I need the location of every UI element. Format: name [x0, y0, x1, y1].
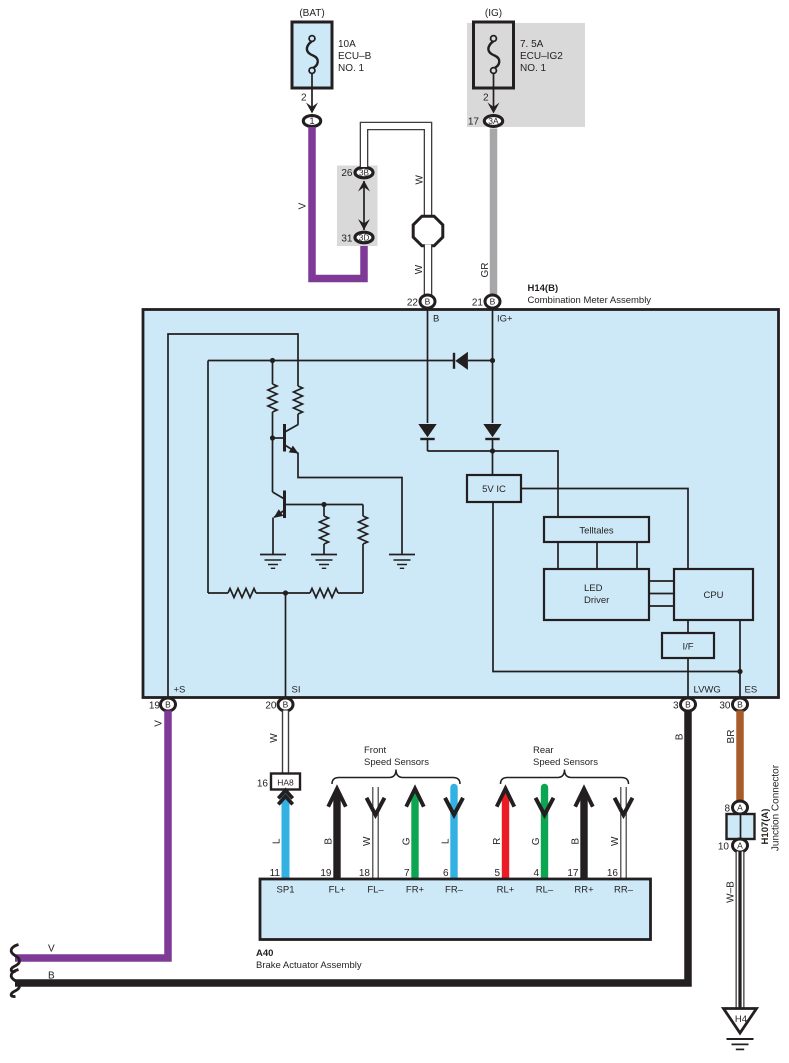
- svg-text:16: 16: [607, 868, 619, 879]
- svg-text:B: B: [674, 733, 685, 740]
- svg-text:Rear: Rear: [533, 745, 554, 756]
- wire V (violet) from connector 1 to connector 3D: [297, 127, 364, 279]
- svg-text:10A: 10A: [338, 39, 356, 50]
- octagon noise filter symbol: [413, 216, 443, 246]
- svg-text:I/F: I/F: [682, 642, 693, 653]
- svg-text:31: 31: [341, 234, 353, 245]
- svg-text:W: W: [269, 733, 280, 743]
- svg-text:L: L: [441, 838, 452, 844]
- resistor R2: [294, 386, 303, 414]
- svg-text:Driver: Driver: [584, 595, 609, 606]
- internal junction link 3B-3D (double arrow): [358, 181, 370, 231]
- wire 5V IC to CPU: [521, 489, 688, 570]
- wire CPU to I/F: [687, 620, 689, 633]
- svg-text:FL–: FL–: [367, 885, 384, 896]
- svg-text:(BAT): (BAT): [299, 8, 324, 19]
- off-page squiggle for V wire: [11, 945, 19, 972]
- wire CPU down to ES pin: [739, 620, 741, 697]
- svg-text:7. 5A: 7. 5A: [520, 39, 544, 50]
- wires Telltales to LED Driver: [558, 542, 637, 569]
- svg-text:B: B: [48, 971, 55, 982]
- svg-text:W–B: W–B: [725, 881, 736, 903]
- wire Q2 emitter to ground: [272, 518, 274, 555]
- transistor Q1 (NPN): [273, 414, 299, 454]
- meter pin 3 terminal B (LVWG): [673, 698, 696, 712]
- svg-text:10: 10: [718, 842, 730, 853]
- label A40 Brake Actuator Assembly: [256, 948, 362, 971]
- meter pin 19 terminal B (+S): [149, 698, 176, 712]
- svg-text:FR+: FR+: [406, 885, 425, 896]
- diode D1 (pointing left): [454, 352, 493, 370]
- svg-text:B: B: [324, 838, 335, 845]
- wire GR (gray) from 3A to meter pin 21: [480, 129, 494, 296]
- svg-text:FR–: FR–: [445, 885, 464, 896]
- resistor R4: [359, 505, 368, 594]
- svg-text:A40: A40: [256, 948, 273, 959]
- brace Rear Speed Sensors: [501, 745, 629, 784]
- svg-text:B: B: [685, 699, 691, 709]
- gray panel behind IG fuse: [467, 23, 585, 127]
- meter pin 20 terminal B (SI): [265, 698, 293, 712]
- svg-text:W: W: [362, 836, 373, 846]
- svg-text:V: V: [154, 720, 165, 727]
- wire from bottom rail down to SI pin: [285, 593, 287, 697]
- wire 5V IC down and right to ES line: [493, 502, 743, 674]
- svg-text:Telltales: Telltales: [579, 526, 614, 537]
- ground (middle): [311, 554, 337, 556]
- wire rear-left speed sensor - wire G: [531, 788, 554, 880]
- junction node on IG+ line: [490, 358, 495, 363]
- wire fuse F1 pin 2 to connector 1: [301, 73, 318, 114]
- svg-text:3B: 3B: [359, 168, 370, 177]
- LED Driver box: [544, 569, 649, 620]
- svg-text:+S: +S: [174, 685, 186, 696]
- label H107(A) Junction Connector: [760, 764, 781, 851]
- svg-text:6: 6: [443, 868, 449, 879]
- svg-text:30: 30: [719, 701, 731, 712]
- wire W-B (white-black) from pin 10 to ground H4: [725, 852, 740, 1009]
- svg-text:H14(B): H14(B): [528, 283, 559, 294]
- svg-text:2: 2: [483, 93, 489, 104]
- svg-text:19: 19: [320, 868, 332, 879]
- svg-text:B: B: [433, 314, 439, 325]
- svg-text:NO. 1: NO. 1: [520, 63, 547, 74]
- diode D3 (down): [483, 424, 501, 451]
- svg-text:B: B: [737, 699, 743, 709]
- svg-text:21: 21: [472, 298, 484, 309]
- diode D2 (down): [418, 424, 436, 451]
- svg-text:17: 17: [468, 117, 480, 128]
- wire fuse F2 pin 2 to connector 3A: [483, 73, 500, 114]
- ground (right): [389, 554, 415, 556]
- brake actuator assembly box A40: [260, 879, 651, 940]
- brace Front Speed Sensors: [332, 745, 460, 784]
- svg-text:ES: ES: [745, 685, 758, 696]
- wire W (white) from 3B up over to octagon noise filter: [364, 126, 428, 218]
- svg-text:FL+: FL+: [329, 885, 346, 896]
- svg-text:A: A: [737, 840, 743, 850]
- svg-text:2: 2: [301, 93, 307, 104]
- svg-text:(IG): (IG): [485, 8, 502, 19]
- svg-text:ECU–B: ECU–B: [338, 51, 372, 62]
- ground point H4: [724, 1009, 757, 1034]
- svg-text:G: G: [402, 837, 413, 845]
- svg-text:A: A: [737, 802, 743, 812]
- svg-text:LVWG: LVWG: [694, 685, 721, 696]
- wire from +S pin up and over to resistor R2: [168, 334, 298, 697]
- wire pin21 IG+ down to diode D3: [492, 309, 494, 423]
- node base rail of Q2: [321, 502, 326, 507]
- svg-text:R: R: [492, 838, 503, 845]
- wire W (white) from pin 20 to HA8: [269, 711, 286, 775]
- wire left branch down to base rail: [207, 361, 209, 594]
- svg-text:B: B: [425, 296, 431, 306]
- label H14(B) Combination Meter Assembly: [528, 283, 652, 306]
- svg-text:V: V: [297, 202, 308, 209]
- fuse F1 10A ECU-B (BAT): [292, 8, 372, 88]
- svg-text:7: 7: [404, 868, 410, 879]
- wire front-left speed sensor + wire B: [320, 789, 345, 879]
- CPU box: [674, 569, 753, 620]
- svg-text:W: W: [414, 264, 425, 274]
- wire diode output rail to telltales feed: [428, 448, 559, 517]
- svg-text:4: 4: [533, 868, 539, 879]
- svg-text:16: 16: [257, 779, 269, 790]
- svg-text:5: 5: [494, 868, 500, 879]
- svg-text:GR: GR: [480, 263, 491, 278]
- svg-text:W: W: [414, 175, 425, 185]
- meter pin 30 terminal B (ES): [719, 698, 747, 712]
- svg-text:Junction Connector: Junction Connector: [770, 764, 781, 851]
- junction connector H107(A) box: [727, 814, 755, 839]
- svg-text:3: 3: [673, 701, 679, 712]
- ground (left): [260, 554, 286, 556]
- svg-text:H107(A): H107(A): [760, 809, 771, 845]
- svg-text:L: L: [272, 838, 283, 844]
- junction connector pin 10 terminal A: [718, 839, 748, 853]
- connector terminal 3A pin 17: [468, 116, 503, 128]
- wire rear-right speed sensor + wire B: [567, 789, 592, 879]
- svg-text:3D: 3D: [359, 233, 370, 242]
- svg-text:CPU: CPU: [703, 590, 723, 601]
- svg-text:B: B: [571, 838, 582, 845]
- wire Q1 base down to Q2 collector: [273, 438, 285, 499]
- combination meter assembly box H14(B): [143, 310, 779, 698]
- svg-text:RR+: RR+: [574, 885, 594, 896]
- wire junction down to 5V IC: [492, 451, 494, 475]
- svg-text:Speed Sensors: Speed Sensors: [533, 757, 598, 768]
- node base of Q1: [270, 435, 275, 440]
- wire I/F down to LVWG pin: [687, 658, 689, 697]
- wire BR (brown) from pin 30 to junction connector: [726, 711, 740, 803]
- svg-text:18: 18: [359, 868, 371, 879]
- svg-text:NO. 1: NO. 1: [338, 63, 365, 74]
- svg-text:ECU–IG2: ECU–IG2: [520, 51, 563, 62]
- svg-text:17: 17: [567, 868, 579, 879]
- svg-text:Front: Front: [364, 745, 387, 756]
- svg-text:B: B: [165, 699, 171, 709]
- 5V IC box: [467, 475, 521, 502]
- svg-text:V: V: [48, 944, 55, 955]
- wire front-right speed sensor - wire L: [441, 788, 464, 880]
- meter pin 22 terminal B: [407, 295, 435, 309]
- svg-text:1: 1: [309, 116, 314, 126]
- resistor R1: [268, 361, 277, 439]
- svg-text:RR–: RR–: [614, 885, 634, 896]
- meter pin 21 terminal B: [472, 295, 500, 309]
- svg-text:26: 26: [341, 168, 353, 179]
- svg-text:19: 19: [149, 701, 161, 712]
- svg-text:B: B: [283, 699, 289, 709]
- svg-text:20: 20: [265, 701, 277, 712]
- svg-text:3A: 3A: [488, 116, 499, 126]
- svg-text:BR: BR: [726, 730, 737, 744]
- svg-text:SI: SI: [292, 685, 301, 696]
- wire front-left speed sensor - wire W: [359, 787, 385, 879]
- junction connector pin 8 terminal A: [724, 801, 747, 815]
- wire B (black) from pin 3 to left edge: [15, 711, 688, 984]
- svg-text:B: B: [490, 296, 496, 306]
- transistor Q2 (PNP): [274, 491, 363, 519]
- connector terminal 3B pin 26: [341, 167, 373, 179]
- wire L (light blue) from HA8 to A40 pin 11 SP1: [270, 790, 293, 879]
- svg-text:IG+: IG+: [497, 314, 513, 325]
- gray panel behind junction connector 3B/3D: [337, 166, 378, 247]
- wires LED Driver to CPU: [649, 581, 674, 606]
- svg-text:W: W: [610, 836, 621, 846]
- svg-text:H4: H4: [735, 1014, 747, 1025]
- I/F box: [662, 633, 714, 658]
- wire rear-left speed sensor + wire R: [492, 789, 514, 879]
- svg-text:G: G: [531, 837, 542, 845]
- Telltales box: [544, 517, 649, 542]
- svg-text:RL–: RL–: [536, 885, 554, 896]
- svg-text:11: 11: [270, 868, 281, 879]
- ground symbol below H4: [727, 1039, 754, 1049]
- connector terminal 1: [303, 116, 320, 127]
- svg-text:5V IC: 5V IC: [482, 484, 506, 495]
- wire W (white) from octagon to meter pin 22: [414, 245, 428, 297]
- wire rear-right speed sensor - wire W: [607, 787, 633, 879]
- svg-text:Combination Meter Assembly: Combination Meter Assembly: [528, 295, 652, 306]
- connector terminal 3D pin 31: [341, 232, 373, 244]
- svg-text:LED: LED: [584, 583, 603, 594]
- wire Q1 emitter to right ground: [298, 453, 402, 555]
- svg-text:22: 22: [407, 298, 419, 309]
- svg-text:RL+: RL+: [497, 885, 515, 896]
- wire pin22 B down to diode D2: [427, 309, 429, 423]
- svg-text:Brake Actuator Assembly: Brake Actuator Assembly: [256, 960, 362, 971]
- off-page squiggle for B wire: [11, 970, 19, 997]
- svg-text:Speed Sensors: Speed Sensors: [364, 757, 429, 768]
- svg-text:HA8: HA8: [277, 778, 294, 788]
- fuse F2 7.5A ECU-IG2 (IG): [474, 8, 564, 88]
- wire front-right speed sensor + wire G: [402, 789, 424, 879]
- wire V (violet) from pin 19 to left edge: [15, 711, 168, 959]
- bottom rail with resistors R5 and R6: [208, 589, 363, 598]
- svg-text:SP1: SP1: [277, 885, 295, 896]
- connector HA8 pin 16: [257, 774, 300, 790]
- resistor R3: [320, 505, 329, 555]
- wire horizontal supply rail to diode D1: [208, 358, 454, 363]
